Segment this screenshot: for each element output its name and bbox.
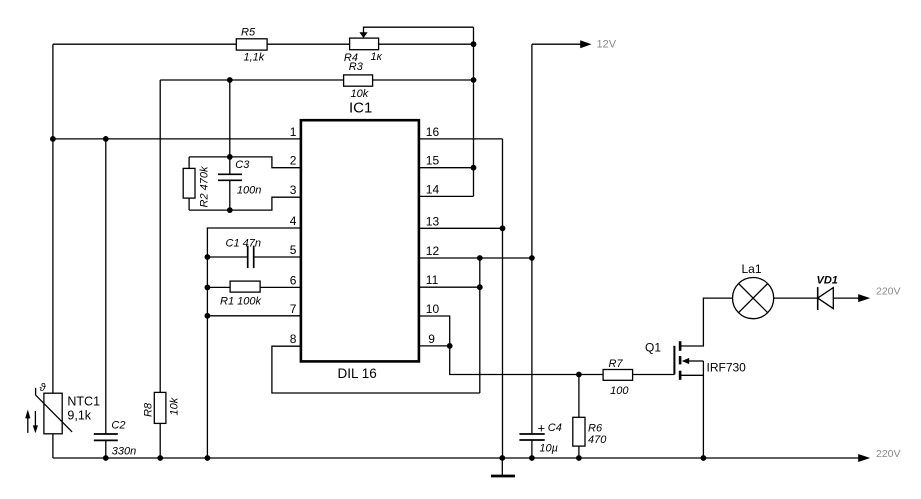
arrow 220V bottom (858, 454, 870, 462)
node ground rail junction (499, 455, 505, 461)
node pin4 vertical rail junction (205, 455, 211, 461)
capacitor C2 plates (94, 434, 118, 440)
svg-text:13: 13 (426, 214, 440, 228)
wire bottom 220V rail (53, 457, 859, 459)
wire vertical x=479.8 pin8 loop to pin 12 (479, 258, 481, 393)
svg-text:R2 470k: R2 470k (199, 166, 211, 207)
wire lamp to diode (774, 297, 818, 299)
node R6 bottom rail junction (576, 455, 582, 461)
svg-text:7: 7 (290, 302, 297, 316)
svg-text:10k: 10k (169, 397, 181, 415)
wire top rail from left corner to R5 (53, 43, 236, 45)
wire R7 to gate (633, 374, 675, 376)
svg-text:8: 8 (290, 332, 297, 346)
wire C3 bottom lead (229, 180, 231, 210)
ground bar (491, 475, 515, 478)
node Q1 source rail junction (701, 455, 707, 461)
svg-text:R6: R6 (588, 423, 603, 435)
svg-text:4: 4 (290, 214, 297, 228)
svg-text:3: 3 (290, 183, 297, 197)
wire pin 9 node down and right to R7 (450, 346, 603, 375)
wire C3 top lead (229, 157, 231, 174)
potentiometer R4 wiper arrow (359, 32, 367, 38)
svg-text:330n: 330n (112, 446, 136, 458)
wire R8 bottom lead (159, 423, 161, 458)
transistor Q1 gate bar (673, 346, 675, 375)
node pin12 / 12V vertical junction (529, 255, 535, 261)
wire pin 15 (420, 167, 474, 169)
wire pin 12 to 12V vertical (420, 257, 532, 259)
wire diode to 220V arrow (833, 297, 858, 299)
svg-text:2: 2 (290, 154, 297, 168)
node C3 top / R2 top / pin2 junction (227, 154, 233, 160)
svg-text:DIL 16: DIL 16 (338, 366, 377, 381)
wire R2 top lead (188, 157, 190, 169)
resistor R7 (603, 370, 633, 381)
node NTC top / pin1 rail junction (50, 136, 56, 142)
wire vertical x=229.8 R3 row to C3 top (229, 80, 231, 157)
node C3 bottom / R2 bottom / pin3 junction (227, 207, 233, 213)
svg-text:C1 47n: C1 47n (226, 237, 261, 249)
node pin15 junction (471, 165, 477, 171)
wire pin 1 row (53, 138, 301, 140)
node pin7 left junction (205, 313, 211, 319)
wire C4 bottom lead (531, 440, 533, 458)
resistor R8 body (154, 392, 166, 423)
wire C2 bottom lead (105, 440, 107, 458)
svg-text:C3: C3 (235, 159, 250, 171)
wire pin 11 (420, 286, 480, 288)
wire pin 8 loop under IC (272, 346, 480, 393)
wire C1 to left vertical (207, 256, 247, 258)
svg-text:5: 5 (290, 243, 297, 257)
wire source horizontal (680, 374, 703, 376)
svg-text:R7: R7 (609, 358, 624, 370)
svg-text:1к: 1к (371, 51, 383, 63)
svg-text:1,1k: 1,1k (244, 52, 265, 64)
wire R1 to left vertical (207, 286, 230, 288)
arrow 220V top (858, 294, 870, 302)
transistor Q1 body channel bar (679, 356, 682, 364)
capacitor C4 plates (519, 434, 544, 440)
wire R4 wiper link over top (364, 27, 474, 33)
wire pin 7 row (207, 315, 300, 317)
resistor R2 body (183, 168, 195, 198)
wire body arrow to source vertical (689, 360, 704, 362)
wire R3 to right vertical (373, 79, 474, 81)
resistor R6 body (573, 417, 585, 446)
ground stub (501, 458, 503, 475)
svg-text:9,1k: 9,1k (67, 409, 91, 423)
node pin11 / pin8-loop junction (477, 284, 483, 290)
wire pin 4 to left vertical (207, 228, 300, 458)
svg-text:1: 1 (290, 125, 297, 139)
svg-text:14: 14 (426, 182, 440, 196)
wire C3 bottom node to pin 3 (189, 197, 300, 210)
wire pin 10 step (420, 316, 450, 346)
svg-text:IRF730: IRF730 (707, 360, 747, 374)
wire pin 9 (420, 345, 450, 347)
arrow 12V (580, 40, 591, 48)
transistor Q1 body-diode arrow (682, 358, 689, 364)
wire pin 16 to ground vertical (420, 138, 503, 140)
svg-text:VD1: VD1 (817, 274, 838, 286)
wire NTC bottom lead (52, 434, 54, 458)
diode VD1 triangle (818, 288, 834, 309)
capacitor C3 plates (218, 174, 242, 180)
IC1 DIL16 body (301, 120, 419, 361)
resistor R1 (230, 281, 260, 292)
transistor Q1 drain channel bar (679, 341, 682, 351)
wire pin 5 to C1 (254, 256, 301, 258)
NTC down arrow (34, 411, 36, 428)
node C2 bottom rail junction (103, 455, 109, 461)
lamp La1 circle (733, 278, 774, 319)
wire vertical x=160.2 to R8 (159, 80, 161, 392)
resistor R3 (344, 75, 373, 86)
svg-text:100n: 100n (237, 185, 261, 197)
wire 12V vertical down to C4 (531, 44, 533, 434)
svg-text:+: + (538, 421, 546, 436)
node R4 wiper link / R5-R4 rail junction (471, 41, 477, 47)
wire pin 14 (420, 195, 474, 197)
svg-text:12V: 12V (597, 39, 617, 51)
wire pin 13 (420, 227, 503, 229)
svg-text:ϑ: ϑ (40, 382, 47, 394)
node pin6/R1 left junction (205, 285, 211, 291)
svg-text:9: 9 (428, 332, 435, 346)
svg-text:R1 100k: R1 100k (220, 295, 261, 307)
capacitor C1 plates (248, 246, 254, 269)
wire right vertical x=473.5 down to pin 14 row (473, 27, 475, 196)
node pin13 / ground vertical junction (500, 225, 506, 231)
node pin9/pin10 junction (447, 343, 453, 349)
wire pin 6 to R1 (260, 286, 300, 288)
svg-text:10: 10 (426, 302, 440, 316)
wire R6 top lead (578, 375, 580, 418)
wire R3 row (160, 79, 343, 81)
svg-text:IC1: IC1 (349, 100, 372, 117)
node C2 top / pin1 rail junction (103, 136, 109, 142)
svg-text:220V: 220V (876, 448, 901, 460)
svg-text:NTC1: NTC1 (67, 394, 100, 408)
svg-text:15: 15 (426, 154, 440, 168)
resistor R5 (236, 39, 267, 50)
NTC up arrow (27, 414, 29, 433)
svg-text:220V: 220V (876, 286, 901, 298)
wire drain to lamp (680, 298, 732, 346)
wire 12V branch horizontal (532, 43, 581, 45)
node R3 row to C3 branch junction (227, 77, 233, 83)
wire R6 bottom lead (578, 446, 580, 458)
wire source vertical to rail (702, 361, 704, 458)
node R8 bottom rail junction (157, 455, 163, 461)
svg-text:470: 470 (588, 434, 607, 446)
svg-text:100: 100 (610, 385, 629, 397)
wire C3 top node to pin 2 (189, 157, 300, 168)
svg-text:Q1: Q1 (645, 341, 661, 355)
node R7 left / R6 top junction (576, 372, 582, 378)
svg-text:R8: R8 (143, 402, 155, 417)
wire left vertical x=52.9 (52, 44, 54, 393)
wire vertical x=105.8 to C2 (105, 139, 107, 434)
svg-text:10µ: 10µ (539, 443, 558, 455)
thermistor NTC1 diagonal strike (36, 388, 73, 432)
node C4 bottom rail junction (529, 455, 535, 461)
svg-text:11: 11 (426, 273, 439, 287)
node R3 right / right vertical junction (471, 77, 477, 83)
svg-text:6: 6 (290, 273, 297, 287)
transistor Q1 source channel bar (679, 371, 682, 380)
diode VD1 cathode bar (817, 287, 819, 310)
wire R2 bottom lead (188, 198, 190, 210)
svg-text:10k: 10k (351, 88, 369, 100)
node pin5/C1 left junction (205, 254, 211, 260)
svg-text:R5: R5 (241, 26, 256, 38)
svg-text:La1: La1 (742, 262, 762, 276)
svg-text:12: 12 (426, 244, 440, 258)
thermistor NTC1 body (44, 393, 62, 434)
wire ground vertical x=502.5 (502, 139, 504, 458)
wire R4 to right vertical (379, 43, 474, 45)
svg-text:R3: R3 (349, 61, 364, 73)
svg-text:16: 16 (426, 125, 440, 139)
lamp La1 cross (739, 284, 768, 313)
svg-text:C4: C4 (548, 422, 562, 434)
node pin12 / pin8-loop junction (477, 255, 483, 261)
svg-text:C2: C2 (111, 420, 125, 432)
potentiometer R4 body (350, 38, 379, 50)
wire R5 to R4 (267, 43, 350, 45)
